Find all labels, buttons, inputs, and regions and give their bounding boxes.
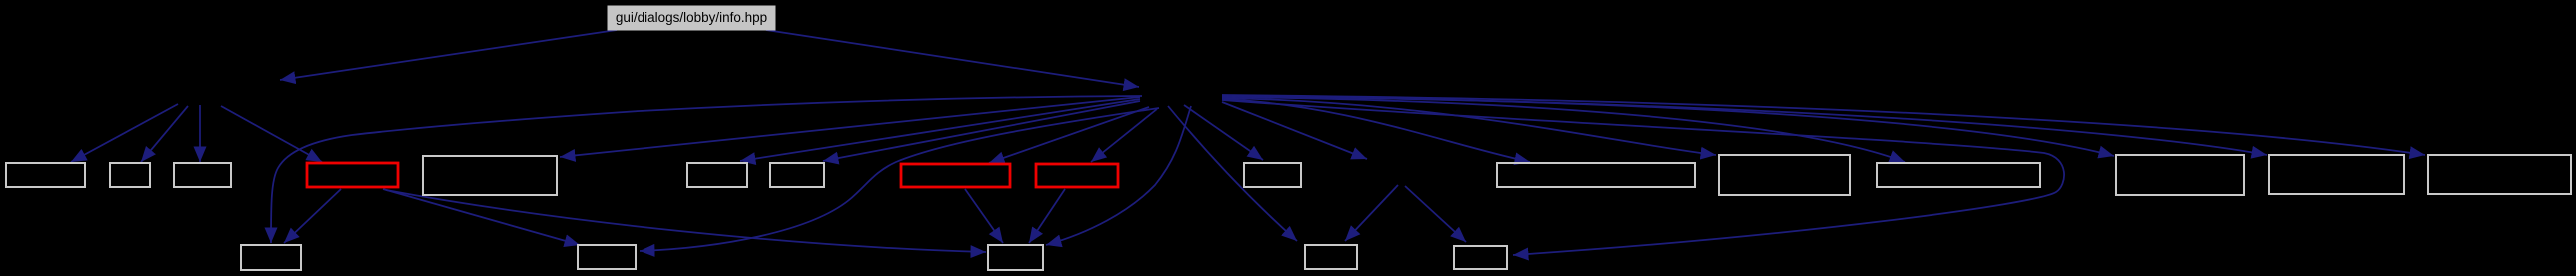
edge lhub->C: [199, 105, 201, 162]
edge hub->b1 long arc: [271, 96, 1142, 243]
edge info.hpp->lhub: [280, 30, 617, 80]
edge hub->L: [1222, 96, 2267, 155]
edge red2->b3: [965, 189, 1003, 243]
edge hub->I: [1222, 98, 1716, 155]
edge red1->b2: [383, 189, 580, 245]
node K: [2116, 155, 2244, 195]
node red1: [307, 163, 398, 187]
node H: [1497, 163, 1695, 187]
svg-text:gui/dialogs/lobby/info.hpp: gui/dialogs/lobby/info.hpp: [616, 10, 767, 25]
edge lhub->A: [71, 104, 178, 162]
node C: [174, 163, 231, 187]
edge hub->red3: [1091, 109, 1157, 162]
edge V->b4: [1345, 185, 1398, 241]
edge hub->b2 s-curve: [640, 108, 1159, 251]
node b2: [578, 245, 636, 269]
edge V->b5: [1405, 186, 1466, 242]
edge hub->H: [1222, 99, 1530, 162]
edge lhub->B: [141, 106, 188, 162]
node E: [687, 163, 747, 187]
node gui/dialogs/lobby/info.hpp (root): [608, 6, 775, 30]
node L: [2269, 155, 2404, 194]
edge hub->b3 curve: [1046, 106, 1191, 245]
edge hub->J: [1222, 97, 1905, 162]
node b1: [241, 245, 301, 270]
node b4: [1305, 245, 1357, 269]
edge hub->M: [1222, 95, 2425, 155]
node G: [1244, 163, 1301, 187]
edge lhub->red1: [221, 106, 322, 162]
node I: [1719, 155, 1850, 195]
node A: [6, 163, 85, 187]
node M: [2428, 155, 2571, 194]
node J: [1877, 163, 2040, 187]
node B: [110, 163, 150, 187]
edge hub->G: [1184, 105, 1263, 160]
edge hub->V: [1222, 102, 1367, 159]
edge hub->red2: [989, 107, 1149, 163]
node red2: [901, 164, 1010, 187]
node b3: [988, 245, 1043, 270]
edge hub->F: [823, 101, 1140, 161]
node F: [770, 163, 824, 187]
node red3: [1036, 164, 1118, 187]
edge hub->K: [1222, 96, 2114, 156]
edge red1->b1: [284, 189, 341, 243]
edge hub->E: [740, 99, 1140, 161]
node D: [423, 156, 557, 195]
edge hub->b4: [1168, 106, 1297, 241]
edge red1->b3: [386, 190, 986, 252]
node b5: [1454, 246, 1507, 269]
edge hub->D: [560, 97, 1140, 157]
edge info.hpp->hub: [766, 30, 1139, 87]
edge hub->b5 long sweep: [1222, 100, 2064, 255]
edge red3->b3: [1029, 189, 1065, 243]
